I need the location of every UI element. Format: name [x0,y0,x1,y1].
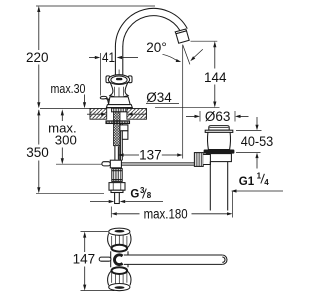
plan view: spout tube white body [123,255,222,264]
plan view: C-ring [114,255,122,265]
drain side inlet knurled coupler [194,153,203,167]
faucet centerline [118,70,120,75]
pop-up rod coupler [120,125,128,131]
20-degree right leader with arrowhead [194,49,203,58]
dimension max.300 extension line (rod level) [56,163,121,165]
handle flutes [113,87,115,96]
svg-text:4: 4 [264,178,269,187]
plan view: spout tube [124,254,222,256]
svg-text:350: 350 [26,145,49,160]
svg-text:137: 137 [139,148,162,163]
spout arc outer [115,8,187,46]
20-degree vertical ray (outlet axis extension) [182,45,184,159]
plan view: hub bottom rim [112,267,128,274]
dimension 41 [100,53,102,96]
deck top extension line to the left [40,108,90,110]
dimension 40-53 [236,129,262,131]
svg-text:41: 41 [102,50,115,65]
svg-text:8: 8 [147,191,152,200]
drain plug cap [209,126,229,131]
svg-text:max.30: max.30 [51,81,86,96]
plan view: pop-up knob pin [99,257,111,261]
dimension 350 extension line (supply connection level) [36,192,104,194]
drain flange lip [205,130,233,132]
pop-up knob stem [106,99,109,106]
svg-text:20°: 20° [146,40,166,55]
dimension 137 line [118,153,124,156]
plan view: hub sides [110,251,112,267]
svg-text:144: 144 [204,70,227,85]
dimension max.300 arrows [61,114,63,121]
20-degree left leader with arrowhead [163,54,177,60]
horizontal pop-up rod to drain [121,162,196,164]
svg-text:1: 1 [257,171,262,180]
drain neck [208,132,231,149]
drain locking nut [207,154,232,162]
drain tailpipe [209,162,211,211]
handle index slot [116,78,122,80]
plan view: bottom spoke cap [109,284,130,291]
body cone [109,97,131,105]
handle side lobes [106,76,110,83]
dimension 144 extension line bottom (rim level) [155,107,220,109]
handle cap ellipse [108,75,129,85]
svg-text:300: 300 [55,133,77,148]
spout tube left edge [114,46,116,74]
threaded shank [114,112,121,146]
G3/8 connection nut [109,183,125,191]
dimension Ø34 hole arrows [87,113,101,115]
svg-text:G: G [130,189,139,201]
plan view: bottom spoke flutes [111,272,113,283]
svg-text:G1: G1 [239,176,255,188]
dimension 144 extension line top (outlet level) [191,40,218,42]
aerator collar [175,29,186,34]
svg-text:Ø63: Ø63 [205,109,231,124]
20-degree tilted ray [183,45,190,65]
spout tube right edge [122,46,124,74]
dimension max.180 [110,207,112,218]
fitting left stub [102,162,110,166]
svg-text:max.180: max.180 [144,206,188,221]
spout arc inner [123,16,180,47]
handle skirt [110,83,128,97]
plan view: top spoke flutes [111,236,113,247]
dimension 144 line [214,47,216,69]
plan view: hub top rim [112,245,128,252]
dimension max.30 arrow (deck thickness) [84,95,86,107]
dimension 137 left extension (faucet axis) [117,147,119,160]
svg-text:220: 220 [26,50,49,65]
label G1 1/4 with leader [231,189,237,192]
cross fitting on rod [110,160,121,168]
pop-up knob (left of body) [100,96,107,99]
body base plinth [106,105,132,108]
locknut [106,121,130,124]
drain: dimension Ø63 [199,111,201,122]
knurled adjuster [112,169,122,182]
drain rubber gasket (black) [204,150,235,154]
plan view: bottom spoke cone [108,271,112,286]
plan view: top spoke cap [109,228,130,235]
plan view: top spoke cone [108,234,112,249]
svg-text:40-53: 40-53 [241,134,274,149]
dimension 220 extension line (top, spout apex level) [36,5,155,7]
dimension 220 line [38,8,40,50]
shank washer in hole [112,108,127,112]
aerator band [176,31,189,43]
dimension 350 line [38,110,40,145]
svg-text:147: 147 [73,251,96,266]
dimension 147 [81,231,108,233]
supply pipe [115,193,120,204]
deck slab right (hatched) [127,109,147,120]
pop-up rod (thin) [119,124,121,161]
svg-text:Ø34: Ø34 [146,90,172,105]
supply stub below shank [114,146,116,161]
deck slab left (hatched) [90,109,107,120]
dimension G3/8 pipe arrows [90,201,109,203]
drain side inlet neck [203,155,210,165]
